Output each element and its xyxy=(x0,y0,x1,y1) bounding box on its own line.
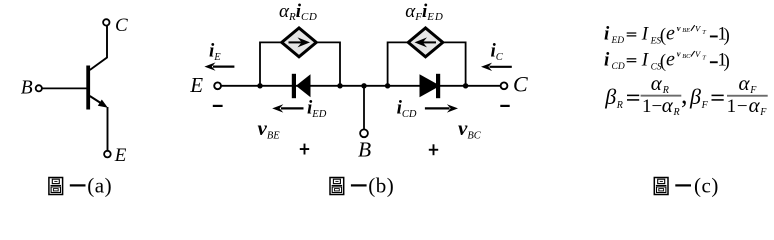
label alpha_R i_CD xyxy=(279,1,317,23)
svg-text:,: , xyxy=(681,80,688,109)
label alpha_F i_ED xyxy=(405,1,443,23)
plus sign right xyxy=(429,144,438,155)
svg-text:R: R xyxy=(616,100,623,111)
svg-text:α: α xyxy=(651,71,663,95)
svg-text:β: β xyxy=(689,84,701,109)
svg-text:α: α xyxy=(739,71,751,95)
svg-text:α: α xyxy=(662,93,674,117)
terminal C xyxy=(103,19,109,25)
node B label xyxy=(358,138,371,162)
equation i_ED = I_ES(e^vBE/VT - 1) xyxy=(604,23,730,47)
svg-text:1−: 1− xyxy=(727,96,749,117)
wire main E-C xyxy=(221,85,500,87)
node C label xyxy=(513,71,528,96)
transistor Q1 emitter lead with arrow xyxy=(90,96,108,151)
equation beta_R, beta_F xyxy=(604,71,767,118)
svg-text:e: e xyxy=(666,48,675,70)
svg-text:): ) xyxy=(724,26,730,46)
label v_BE xyxy=(258,116,281,142)
node B label xyxy=(21,78,33,99)
svg-text:(c): (c) xyxy=(694,174,719,198)
wire left source loop xyxy=(260,42,340,85)
caption 圖一(a) xyxy=(49,174,112,198)
terminal C xyxy=(501,82,508,89)
diode D_C (right, pointing to C) xyxy=(420,74,441,98)
equation i_CD = I_CS(e^vBC/VT - 1) xyxy=(604,48,730,72)
junction left-loop right xyxy=(337,83,342,88)
svg-text:B: B xyxy=(358,138,371,162)
node C label xyxy=(115,15,128,36)
transistor Q1 base bar xyxy=(86,66,90,110)
transistor Q1 collector lead xyxy=(90,26,107,70)
svg-text:β: β xyxy=(604,84,616,109)
svg-text:F: F xyxy=(759,107,767,118)
caption 圖一(b) xyxy=(330,174,394,198)
wire base xyxy=(42,87,87,89)
svg-text:C: C xyxy=(115,15,128,36)
minus sign at E side xyxy=(213,105,223,107)
junction right-loop right xyxy=(463,83,468,88)
svg-text:C: C xyxy=(513,71,528,96)
svg-text:B: B xyxy=(21,78,33,99)
junction at E-side loop xyxy=(257,83,262,88)
junction B xyxy=(361,83,366,88)
terminal E xyxy=(104,151,111,158)
caption 圖一(c) xyxy=(654,174,719,198)
svg-text:T: T xyxy=(702,55,706,62)
svg-text:α: α xyxy=(749,93,761,117)
wire B stub xyxy=(363,86,365,130)
svg-text:e: e xyxy=(666,23,675,45)
label i_C with arrow xyxy=(481,41,512,72)
label i_E with arrow xyxy=(204,41,234,71)
svg-text:T: T xyxy=(702,29,706,36)
svg-text:i: i xyxy=(604,49,610,70)
terminal B xyxy=(36,85,42,91)
svg-text:CD: CD xyxy=(612,62,625,72)
junction right-loop left xyxy=(385,83,390,88)
svg-text:(b): (b) xyxy=(368,174,394,198)
svg-text:BC: BC xyxy=(682,53,691,60)
svg-text:E: E xyxy=(189,73,203,97)
svg-text:F: F xyxy=(701,100,709,111)
svg-text:v: v xyxy=(677,23,681,33)
svg-text:v: v xyxy=(677,49,681,59)
svg-text:R: R xyxy=(673,107,680,118)
svg-text:): ) xyxy=(724,52,730,72)
svg-text:(a): (a) xyxy=(87,174,112,198)
plus sign left xyxy=(300,144,309,155)
node E label xyxy=(114,145,127,166)
wire right source loop xyxy=(388,42,466,85)
svg-text:ED: ED xyxy=(611,36,625,46)
svg-text:BE: BE xyxy=(682,27,690,34)
node E label xyxy=(189,73,203,97)
terminal B xyxy=(360,129,368,137)
svg-text:i: i xyxy=(604,24,610,45)
diode D_E (left, pointing to E) xyxy=(292,74,311,98)
svg-text:E: E xyxy=(114,145,127,166)
svg-text:1−: 1− xyxy=(642,96,662,117)
label v_BC xyxy=(458,116,482,142)
current source alpha_F i_ED xyxy=(408,28,443,57)
label i_CD with arrow xyxy=(397,98,458,121)
current source alpha_R i_CD xyxy=(282,28,317,57)
terminal E xyxy=(214,82,221,89)
label i_ED with arrow xyxy=(272,98,326,121)
minus sign at C side xyxy=(500,105,509,107)
